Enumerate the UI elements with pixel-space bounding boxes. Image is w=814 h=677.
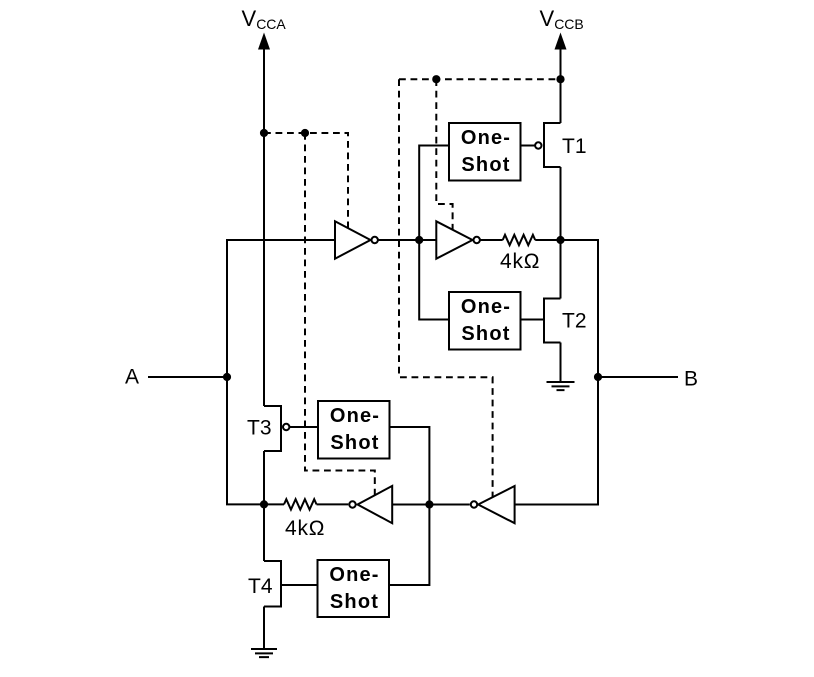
- wire A rail up to inverter U2 input: [227, 240, 335, 377]
- one-shot U4 box: [449, 292, 521, 350]
- svg-text:One-: One-: [461, 127, 511, 149]
- svg-text:Shot: Shot: [330, 591, 379, 613]
- transistor T2 body: [544, 299, 561, 343]
- node U2 output junction: [415, 236, 423, 244]
- transistor T3 body: [264, 406, 281, 451]
- wire dashed from node to inverter U3 gate drive: [436, 79, 452, 229]
- wire T4 source to ground: [263, 607, 265, 650]
- svg-text:Shot: Shot: [330, 432, 379, 454]
- transistor T1 body: [544, 123, 561, 167]
- inverter U7 output bubble: [471, 501, 477, 507]
- svg-text:T2: T2: [562, 310, 587, 333]
- svg-text:T1: T1: [562, 135, 587, 158]
- wire node to one-shot U1 and U4 inputs: [419, 146, 449, 320]
- inverter U3 output bubble: [474, 237, 480, 243]
- node VCCA dashed junction: [260, 129, 268, 137]
- wire VCCA rail / T3 drain: [263, 48, 265, 406]
- wire B lead: [598, 376, 678, 378]
- svg-text:Shot: Shot: [461, 154, 510, 176]
- power VCCB arrow: [555, 33, 567, 50]
- wire T2 drain up to node: [560, 240, 562, 299]
- one-shot U5 box: [318, 401, 390, 459]
- node resistor R2 junction: [260, 500, 268, 508]
- ground under T2: [547, 382, 575, 390]
- wire T1 source down to node: [560, 167, 562, 240]
- inverter U5: [358, 486, 393, 523]
- wire VCCB rail / T1 drain: [560, 48, 562, 123]
- transistor T1 gate bubble: [535, 142, 541, 148]
- wire node to resistor R2: [264, 503, 284, 505]
- node dashed top junction: [432, 75, 440, 83]
- ground under T4: [251, 649, 277, 657]
- node dashed junction: [301, 129, 309, 137]
- wire U2 output to node: [378, 239, 420, 241]
- wire node down to T4 drain: [263, 504, 265, 561]
- wire A rail down to resistor R2 node: [227, 377, 264, 504]
- node U5/U7 junction: [425, 500, 433, 508]
- inverter U5 input wire: [392, 504, 429, 506]
- inverter U2: [335, 221, 371, 258]
- node T1/T2 drain junction: [556, 236, 564, 244]
- inverter U5 output bubble: [349, 501, 355, 507]
- wire resistor R1 to B rail: [515, 240, 598, 505]
- wire node to inverter U7 output bubble: [429, 504, 469, 506]
- svg-text:VCCA: VCCA: [242, 6, 287, 32]
- svg-text:One-: One-: [461, 296, 511, 318]
- svg-text:T3: T3: [247, 417, 272, 440]
- svg-text:One-: One-: [330, 405, 380, 427]
- svg-text:VCCB: VCCB: [540, 6, 584, 32]
- node B junction: [594, 373, 602, 381]
- wire dashed VCCA to inverter U2 gate drive: [264, 133, 348, 228]
- transistor T4 body: [264, 561, 281, 607]
- svg-text:T4: T4: [248, 575, 273, 598]
- one-shot U8 box: [318, 560, 390, 617]
- wire one-shot U1 output to T1 gate: [521, 145, 535, 147]
- inverter U3: [436, 221, 472, 258]
- inverter U2 output bubble: [372, 237, 378, 243]
- power VCCA arrow: [258, 33, 270, 50]
- svg-text:One-: One-: [329, 564, 379, 586]
- svg-text:4kΩ: 4kΩ: [500, 250, 540, 273]
- wire dashed top rail to VCCB: [399, 78, 561, 80]
- svg-text:A: A: [125, 366, 139, 389]
- wire resistor R2 to inverter U5 output bubble: [317, 503, 349, 505]
- resistor R2: [284, 499, 316, 509]
- inverter U3 input wire: [420, 239, 436, 241]
- wire A lead: [148, 376, 227, 378]
- inverter U7: [478, 486, 514, 523]
- wire dashed from top rail to inverter U6 gate drive: [399, 79, 493, 497]
- node A junction: [223, 373, 231, 381]
- transistor T3 gate bubble: [283, 424, 289, 430]
- svg-text:B: B: [684, 368, 698, 391]
- wire T3 source down to node: [263, 451, 265, 504]
- wire T3 gate to one-shot U5: [290, 426, 318, 428]
- resistor R1: [503, 235, 536, 245]
- node dashed VCCB junction: [556, 75, 564, 83]
- svg-text:Shot: Shot: [461, 323, 510, 345]
- wire T2 source to ground: [560, 343, 562, 383]
- wire U3 output to resistor R1: [480, 239, 503, 241]
- one-shot U1 box: [449, 123, 521, 181]
- wire T4 gate to one-shot U8: [282, 584, 318, 586]
- svg-text:4kΩ: 4kΩ: [285, 517, 325, 540]
- wire dashed from node to inverter U5 gate drive: [305, 133, 375, 495]
- wire one-shot U4 output to T2 gate: [521, 319, 544, 321]
- wire one-shot U5 and U7 outputs to node: [390, 427, 430, 585]
